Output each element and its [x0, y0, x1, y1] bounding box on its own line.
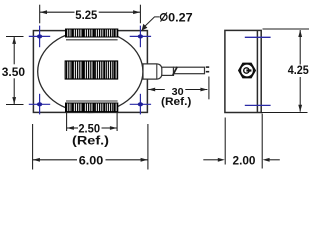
hex screw	[239, 63, 255, 77]
svg-text:0.27: 0.27	[168, 10, 193, 24]
dim 2.50	[67, 113, 118, 131]
bottom vent slot	[66, 101, 118, 112]
dim 2.00	[203, 114, 279, 169]
svg-text:5.25: 5.25	[75, 8, 97, 22]
svg-text:2.00: 2.00	[233, 154, 256, 168]
leader dia 0.27	[145, 17, 160, 27]
hole bottom-left	[29, 94, 50, 115]
cable	[174, 67, 205, 74]
hole bottom-right	[130, 94, 151, 115]
hole top-left	[29, 26, 50, 48]
cable sleeve	[162, 67, 174, 75]
dim 6.00	[33, 124, 148, 170]
side view body (right)	[225, 30, 261, 112]
hole top-right	[130, 26, 151, 48]
motor body ellipse	[38, 31, 143, 113]
dim 5.25	[40, 5, 141, 24]
top vent slot	[66, 29, 118, 40]
side hole centerline top (blue)	[245, 36, 271, 38]
dim 4.25	[261, 29, 309, 113]
svg-text:6.00: 6.00	[79, 154, 104, 168]
cable break mark	[173, 67, 177, 75]
dim 3.50	[6, 37, 24, 105]
side hole centerline bottom (blue)	[245, 104, 271, 106]
shaft boss	[143, 64, 162, 79]
cable end prongs	[206, 66, 209, 68]
svg-text:3.50: 3.50	[2, 65, 26, 79]
svg-text:(Ref.): (Ref.)	[72, 133, 109, 147]
dim 30 (Ref.)	[148, 77, 209, 100]
side view plate face line	[256, 30, 258, 112]
svg-text:(Ref.): (Ref.)	[161, 96, 192, 108]
svg-text:4.25: 4.25	[288, 63, 309, 77]
mounting plate (front view)	[33, 31, 147, 113]
middle vent slot	[65, 61, 117, 79]
